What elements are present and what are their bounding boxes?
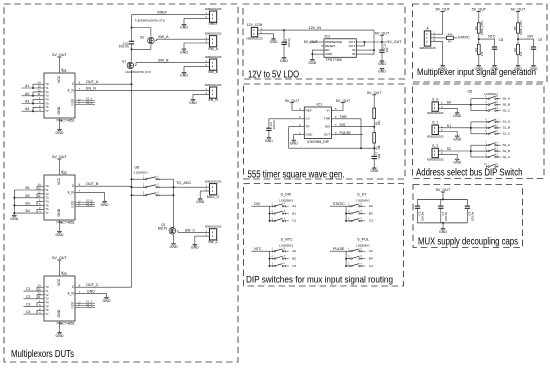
svg-text:GND: GND xyxy=(514,67,522,71)
svg-text:VREF: VREF xyxy=(208,22,217,26)
svg-text:F_BODMFLW2NTNN_GT-B: F_BODMFLW2NTNN_GT-B xyxy=(135,20,165,23)
svg-text:GND: GND xyxy=(180,50,188,54)
svg-text:E_N: E_N xyxy=(68,89,75,93)
svg-text:GND: GND xyxy=(439,230,447,234)
svg-text:47k: 47k xyxy=(519,51,523,56)
svg-text:GND: GND xyxy=(56,233,64,237)
svg-text:SW_A: SW_A xyxy=(158,35,169,39)
svg-text:STATIC: STATIC xyxy=(458,36,470,40)
svg-text:47k: 47k xyxy=(448,32,453,36)
svg-text:C4: C4 xyxy=(26,310,31,314)
svg-text:KEB0002GD25: KEB0002GD25 xyxy=(246,38,263,41)
svg-text:GND: GND xyxy=(170,245,178,249)
svg-text:C1: C1 xyxy=(26,287,31,291)
svg-text:R5: R5 xyxy=(513,26,517,30)
svg-text:OUT_B: OUT_B xyxy=(86,182,99,186)
svg-text:S1_C: S1_C xyxy=(503,132,511,136)
svg-text:ICM7555_DIP: ICM7555_DIP xyxy=(307,140,329,144)
svg-text:OUT_A: OUT_A xyxy=(86,80,99,84)
svg-text:B4: B4 xyxy=(26,209,30,213)
svg-text:R3: R3 xyxy=(474,26,478,30)
svg-text:S_DIV: S_DIV xyxy=(281,193,292,197)
svg-text:Z: Z xyxy=(72,285,74,289)
svg-text:GND: GND xyxy=(378,70,386,74)
svg-text:S0: S0 xyxy=(447,101,451,105)
svg-text:1.1825069-2: 1.1825069-2 xyxy=(279,199,294,202)
svg-text:KEB0002GD25: KEB0002GD25 xyxy=(205,8,222,11)
svg-text:GND: GND xyxy=(180,74,188,78)
svg-text:Z: Z xyxy=(72,82,74,86)
svg-text:DIP switches for mux input si: DIP switches for mux input signal routin… xyxy=(246,275,393,286)
svg-text:SW_B: SW_B xyxy=(158,58,169,62)
svg-text:B2: B2 xyxy=(292,256,296,260)
svg-text:S1_A: S1_A xyxy=(503,120,511,124)
svg-text:GND: GND xyxy=(453,161,461,165)
svg-text:A1: A1 xyxy=(25,84,29,88)
svg-text:Y7: Y7 xyxy=(45,109,49,113)
svg-text:MUX_O: MUX_O xyxy=(207,195,220,199)
svg-text:S2_A: S2_A xyxy=(503,143,511,147)
svg-text:1.1825069-2: 1.1825069-2 xyxy=(134,172,149,175)
svg-text:C3: C3 xyxy=(369,219,373,223)
svg-text:GND: GND xyxy=(87,290,95,294)
svg-text:KEB0002GD25: KEB0002GD25 xyxy=(205,84,222,87)
svg-text:C8: C8 xyxy=(499,38,503,42)
svg-text:KEB0002GD25: KEB0002GD25 xyxy=(205,32,222,35)
svg-text:DIV: DIV xyxy=(254,202,260,206)
svg-text:S2: S2 xyxy=(140,35,144,39)
svg-text:GND: GND xyxy=(191,246,199,250)
svg-text:100.0n: 100.0n xyxy=(421,212,425,221)
svg-text:12V_CON: 12V_CON xyxy=(247,23,263,27)
svg-text:GND: GND xyxy=(196,200,204,204)
svg-text:SW_C: SW_C xyxy=(185,228,196,232)
svg-text:74HCT4851: 74HCT4851 xyxy=(56,221,75,225)
svg-text:U6: U6 xyxy=(135,166,140,170)
svg-text:E_N: E_N xyxy=(68,292,75,296)
svg-text:GND: GND xyxy=(180,26,188,30)
svg-text:THR: THR xyxy=(340,115,348,119)
svg-text:5V_OUT: 5V_OUT xyxy=(436,188,451,192)
svg-text:KEB0003GD25: KEB0003GD25 xyxy=(419,47,436,50)
svg-text:PULSE: PULSE xyxy=(333,247,345,251)
svg-text:S1: S1 xyxy=(122,60,126,64)
svg-text:1.1825069-2: 1.1825069-2 xyxy=(279,244,294,247)
svg-text:TPS77350: TPS77350 xyxy=(326,58,342,62)
svg-text:IC2: IC2 xyxy=(325,34,331,38)
svg-text:B1: B1 xyxy=(26,186,30,190)
svg-text:555 timer square wave gen.: 555 timer square wave gen. xyxy=(248,169,345,180)
svg-text:VREF: VREF xyxy=(157,10,168,14)
svg-text:MUX supply decoupling caps: MUX supply decoupling caps xyxy=(418,236,518,247)
svg-text:GND: GND xyxy=(439,67,447,71)
svg-text:74HCT4851: 74HCT4851 xyxy=(56,119,75,123)
svg-text:S0_C: S0_C xyxy=(503,108,511,112)
svg-text:GND: GND xyxy=(325,52,333,56)
svg-text:5V_OUT: 5V_OUT xyxy=(435,8,450,12)
svg-text:GND: GND xyxy=(280,59,288,63)
svg-text:GND: GND xyxy=(10,217,18,221)
svg-text:12V to 5V LDO: 12V to 5V LDO xyxy=(248,69,299,80)
svg-text:A2: A2 xyxy=(292,249,296,253)
svg-text:GND: GND xyxy=(56,131,64,135)
svg-text:Y7: Y7 xyxy=(45,211,49,215)
svg-text:10u: 10u xyxy=(377,153,381,158)
svg-text:GND: GND xyxy=(57,309,61,317)
svg-text:GND: GND xyxy=(308,61,316,65)
svg-text:74HCT4851: 74HCT4851 xyxy=(56,322,75,326)
svg-text:Y7: Y7 xyxy=(45,312,49,316)
svg-text:GND: GND xyxy=(306,133,314,137)
svg-text:S_ST: S_ST xyxy=(357,193,367,197)
svg-text:C2: C2 xyxy=(26,295,31,299)
svg-text:Multiplexors DUTs: Multiplexors DUTs xyxy=(11,349,74,360)
svg-text:1.1825069-2: 1.1825069-2 xyxy=(356,244,371,247)
svg-text:A1: A1 xyxy=(292,204,296,208)
svg-text:5V_OUT: 5V_OUT xyxy=(304,40,319,44)
svg-text:1.1825069-2: 1.1825069-2 xyxy=(356,199,371,202)
svg-text:STATIC: STATIC xyxy=(333,202,345,206)
svg-text:GND: GND xyxy=(270,40,278,44)
svg-text:C1: C1 xyxy=(292,219,296,223)
svg-text:C9: C9 xyxy=(538,38,542,42)
svg-text:GND: GND xyxy=(453,114,461,118)
svg-text:5V_OUT: 5V_OUT xyxy=(511,8,526,12)
svg-text:R6: R6 xyxy=(513,48,517,52)
svg-text:S2_B: S2_B xyxy=(86,203,93,207)
svg-text:NTC: NTC xyxy=(488,35,496,39)
svg-text:GND: GND xyxy=(530,67,538,71)
svg-text:KEB0002GD25: KEB0002GD25 xyxy=(205,56,222,59)
svg-text:V+: V+ xyxy=(326,108,330,112)
svg-text:EN_N: EN_N xyxy=(208,98,218,102)
svg-text:IC1: IC1 xyxy=(317,102,323,106)
svg-text:12V_IN: 12V_IN xyxy=(309,26,322,30)
svg-text:R4: R4 xyxy=(474,48,478,52)
svg-text:KEB0002GD25: KEB0002GD25 xyxy=(427,112,444,115)
svg-text:S2_B: S2_B xyxy=(503,149,511,153)
svg-text:TO_ADC: TO_ADC xyxy=(176,181,191,185)
svg-text:VCC: VCC xyxy=(57,278,61,286)
svg-text:B1: B1 xyxy=(292,211,296,215)
svg-text:A4: A4 xyxy=(369,249,373,253)
svg-text:S_NTC: S_NTC xyxy=(281,238,294,242)
svg-text:GND: GND xyxy=(290,142,298,146)
svg-text:Z: Z xyxy=(72,184,74,188)
svg-text:B4: B4 xyxy=(369,256,373,260)
svg-text:B2: B2 xyxy=(26,194,30,198)
svg-text:A4: A4 xyxy=(25,107,29,111)
svg-text:VCC: VCC xyxy=(57,177,61,185)
svg-text:DIS: DIS xyxy=(340,123,346,127)
svg-text:S_1: S_1 xyxy=(432,121,438,125)
svg-text:100.0n: 100.0n xyxy=(119,45,129,49)
svg-text:100.0n: 100.0n xyxy=(272,120,276,129)
svg-text:E_N: E_N xyxy=(68,191,75,195)
svg-text:A3: A3 xyxy=(369,204,373,208)
svg-text:DIV: DIV xyxy=(528,35,534,39)
svg-text:SW_B: SW_B xyxy=(208,70,219,74)
svg-text:1.8234PLW2NTNN_GT-B: 1.8234PLW2NTNN_GT-B xyxy=(125,72,151,74)
svg-text:OUT: OUT xyxy=(324,133,331,137)
svg-text:S_PUL: S_PUL xyxy=(357,238,369,242)
svg-text:S_0: S_0 xyxy=(432,98,438,102)
svg-text:C3: C3 xyxy=(26,302,31,306)
svg-text:GND: GND xyxy=(453,137,461,141)
svg-text:VCC: VCC xyxy=(57,75,61,83)
svg-text:100.0n: 100.0n xyxy=(444,212,448,221)
svg-text:C4: C4 xyxy=(369,264,373,268)
svg-text:S2_C: S2_C xyxy=(86,304,93,308)
svg-text:SW_A: SW_A xyxy=(208,47,219,51)
svg-text:KEB0002GD25: KEB0002GD25 xyxy=(427,135,444,138)
svg-text:GND: GND xyxy=(103,299,111,303)
svg-text:100.0n: 100.0n xyxy=(287,38,291,47)
svg-text:GND: GND xyxy=(57,208,61,216)
svg-text:KEB0002GD25: KEB0002GD25 xyxy=(427,159,444,162)
svg-text:OUT_C: OUT_C xyxy=(86,283,99,287)
svg-text:10k: 10k xyxy=(377,145,381,150)
svg-text:GND: GND xyxy=(56,334,64,338)
svg-text:C2: C2 xyxy=(292,264,296,268)
svg-text:47k: 47k xyxy=(480,51,484,56)
svg-text:GND: GND xyxy=(378,62,386,66)
svg-text:GND: GND xyxy=(475,67,483,71)
svg-text:GND: GND xyxy=(491,67,499,71)
svg-text:KEB0002GD25: KEB0002GD25 xyxy=(205,226,222,229)
svg-text:5V_OUT: 5V_OUT xyxy=(387,40,402,44)
svg-text:S2_A: S2_A xyxy=(86,101,93,105)
svg-text:S0_B: S0_B xyxy=(503,103,511,107)
svg-text:B3: B3 xyxy=(369,211,373,215)
svg-text:S2_C: S2_C xyxy=(503,155,511,159)
svg-text:GND: GND xyxy=(189,101,197,105)
svg-text:R7: R7 xyxy=(448,40,452,44)
svg-text:PULSE: PULSE xyxy=(340,131,352,135)
svg-text:Address select bus DIP Switch: Address select bus DIP Switch xyxy=(416,168,523,179)
svg-text:100.0n: 100.0n xyxy=(471,212,475,221)
svg-text:5V_OUT: 5V_OUT xyxy=(472,8,487,12)
svg-text:B3: B3 xyxy=(26,201,30,205)
svg-text:IN: IN xyxy=(352,52,355,56)
svg-text:5V_OUT: 5V_OUT xyxy=(52,155,67,159)
svg-text:S1_B: S1_B xyxy=(503,126,511,130)
svg-text:KEB0002GD25: KEB0002GD25 xyxy=(205,180,222,183)
svg-text:DIS: DIS xyxy=(325,125,330,129)
svg-text:S0_A: S0_A xyxy=(503,97,511,101)
svg-text:S2: S2 xyxy=(447,147,451,151)
svg-text:THR: THR xyxy=(324,117,331,121)
svg-text:10u: 10u xyxy=(385,47,389,52)
svg-text:EN_N: EN_N xyxy=(86,87,96,91)
svg-text:A3: A3 xyxy=(25,100,29,104)
svg-text:100K_NTC: 100K_NTC xyxy=(480,20,484,35)
svg-text:GND: GND xyxy=(101,203,109,207)
svg-text:GND: GND xyxy=(265,139,273,143)
svg-text:U5: U5 xyxy=(468,89,473,93)
svg-text:REF: REF xyxy=(306,108,312,112)
svg-text:GND: GND xyxy=(370,169,378,173)
svg-text:10k: 10k xyxy=(377,120,381,125)
svg-text:BS170: BS170 xyxy=(158,226,168,230)
svg-text:GND: GND xyxy=(57,106,61,114)
svg-text:A2: A2 xyxy=(25,92,29,96)
svg-text:S_2: S_2 xyxy=(432,144,438,148)
svg-text:NTC: NTC xyxy=(254,247,262,251)
svg-text:SW_C: SW_C xyxy=(208,240,219,244)
svg-text:100K_NTC: 100K_NTC xyxy=(519,20,523,35)
svg-text:S1: S1 xyxy=(447,124,451,128)
